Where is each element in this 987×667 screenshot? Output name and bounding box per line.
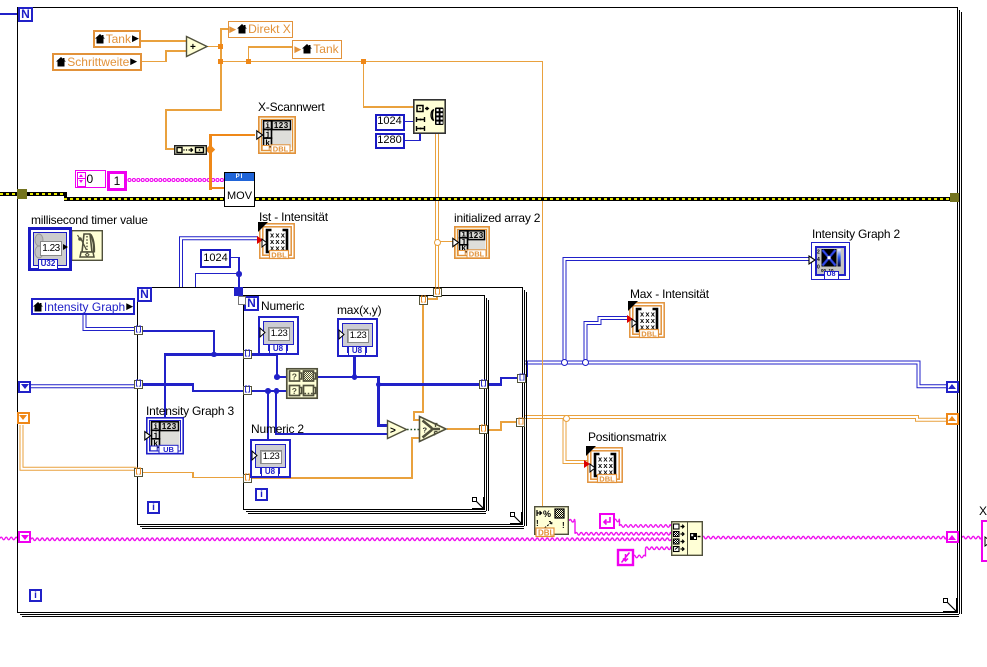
- wire: jog between loop tunnels: [436, 295, 438, 300]
- svg-text:?: ?: [423, 425, 428, 434]
- constant 1024 a: [375, 114, 405, 131]
- N terminal inner: [244, 296, 259, 311]
- wire: to Tank local: [248, 46, 292, 48]
- junction dot blue: [236, 271, 241, 276]
- junction ring orange: [434, 239, 441, 246]
- control Tank: [93, 30, 142, 48]
- control ref Intensity Graph: [31, 298, 135, 315]
- shift register right orange: [946, 413, 959, 425]
- tunnel middle left 1: [134, 326, 143, 335]
- tunnel middle right orange: [516, 418, 525, 427]
- wire: select t input: [422, 303, 424, 412]
- for loop middle border: [137, 287, 523, 525]
- wire: 1024 to Initialize Array: [404, 121, 414, 123]
- wire init array down: [435, 133, 439, 289]
- wire: long vertical orange x542: [542, 61, 544, 507]
- svg-text:DBL: DBL: [538, 528, 555, 537]
- constant 1280: [375, 133, 405, 150]
- function greater?: [386, 419, 408, 440]
- constant slash: [617, 549, 634, 566]
- svg-text:DBL: DBL: [641, 330, 657, 339]
- indicator Max - Intensitaet: [629, 302, 665, 338]
- label max(x,y): [337, 303, 381, 317]
- wire: to Direkt X: [220, 28, 229, 30]
- constant end of line: [599, 513, 615, 529]
- indicator millisecond timer value U32: [28, 227, 72, 271]
- wire: middle tunnel2 inside: [143, 383, 194, 385]
- i terminal inner: [255, 488, 268, 501]
- svg-text:DBL: DBL: [273, 145, 289, 154]
- wire 2D blue long: [524, 363, 947, 387]
- junction ring orange 2: [563, 415, 570, 422]
- tunnel inner left orange: [243, 474, 252, 483]
- label Positionsmatrix: [588, 430, 666, 444]
- svg-text:%: %: [543, 509, 551, 519]
- subVI PI MOV: [224, 172, 255, 207]
- svg-text:2: 2: [817, 249, 820, 255]
- svg-text:!: !: [562, 521, 565, 530]
- control Numeric 2: [250, 439, 291, 478]
- label Max - Intensität: [630, 287, 709, 301]
- function build array: [174, 145, 207, 155]
- wire: to Numeric 2: [267, 391, 269, 439]
- shift register right magenta: [946, 531, 959, 543]
- junction diamond: [206, 145, 215, 154]
- wire branch Max: [586, 318, 630, 361]
- function select: [418, 415, 448, 443]
- svg-text:123: 123: [274, 121, 289, 130]
- wire SR blue to tunnel: [31, 384, 136, 388]
- wire: add output: [207, 46, 222, 48]
- wire SR orange down: [22, 425, 137, 469]
- wire: 1280 to Initialize Array: [404, 140, 421, 142]
- i terminal outer: [29, 589, 42, 602]
- wire: outer loop count wire: [0, 13, 19, 15]
- wire: inner tunnel2 to max&min: [251, 390, 288, 392]
- wire: down to build array: [165, 109, 222, 111]
- tunnel middle right blue: [517, 374, 526, 383]
- i terminal middle: [147, 501, 160, 514]
- wire: long horizontal y61: [221, 61, 544, 63]
- svg-text:UB: UB: [163, 445, 174, 454]
- junction rings blue: [561, 359, 568, 366]
- svg-text:4: 4: [817, 257, 820, 263]
- shift register left blue: [18, 381, 31, 393]
- wire: hidden vertical at middle border: [526, 361, 528, 377]
- function wait until next ms multiple: [71, 230, 103, 261]
- function initialize array: [413, 99, 446, 134]
- control Numeric: [258, 316, 299, 355]
- control Schrittweite: [52, 53, 142, 72]
- wire IG ref out: [85, 314, 137, 329]
- wire: build array out to junction: [205, 149, 211, 151]
- tunnel inner top orange: [419, 296, 428, 305]
- svg-text:DBL: DBL: [271, 250, 287, 259]
- tunnel middle top blue solid: [234, 287, 243, 296]
- shift register left magenta: [18, 531, 31, 543]
- N terminal outer: [18, 7, 33, 22]
- wire: Tank to add: [141, 40, 187, 42]
- wire: inner right blue tunnel out: [487, 383, 502, 385]
- wire: element input to Initialize Array: [363, 61, 365, 108]
- wire: to > and inner right tunnel: [377, 376, 379, 427]
- svg-text:+: +: [190, 42, 196, 53]
- wire: vertical trunk x221: [220, 29, 222, 112]
- label Numeric 2: [251, 422, 304, 436]
- for loop outer folded corner: [943, 598, 958, 613]
- wire: max&min out / max(x,y) join: [318, 376, 380, 378]
- constant string 1: [107, 171, 127, 191]
- label Intensity Graph 2: [812, 227, 900, 241]
- tunnel inner right blue: [479, 380, 488, 389]
- tunnel middle left orange: [134, 468, 143, 477]
- function add: [185, 35, 209, 58]
- indicator Ist - Intensitaet: [259, 223, 295, 259]
- tunnel olive error left: [17, 189, 27, 199]
- wire: error cluster main segment: [64, 197, 950, 201]
- svg-text:123: 123: [162, 422, 177, 431]
- wire: to initialized array 2: [440, 241, 453, 243]
- tunnel inner top white: [238, 296, 247, 305]
- wire: error step: [64, 192, 67, 201]
- wire: 1024 const2 branches: [230, 257, 240, 259]
- tunnel olive error right: [950, 193, 959, 202]
- local Tank write: [292, 40, 342, 59]
- wire: error cluster left segment: [0, 192, 66, 196]
- wire: middle left orange tunnel in: [143, 472, 194, 474]
- junction dots orange: [218, 44, 223, 49]
- svg-text:0: 0: [817, 264, 820, 270]
- svg-text:!: !: [536, 519, 539, 528]
- label initialized array 2: [454, 211, 540, 225]
- tunnel inner left 1: [243, 350, 252, 359]
- shift register right blue: [946, 381, 959, 393]
- local Direkt X: [228, 21, 293, 38]
- control max(x,y): [337, 318, 378, 357]
- N terminal middle: [137, 287, 152, 302]
- indicator X-Scannwert: [258, 116, 296, 154]
- constant 1024 b: [200, 249, 231, 268]
- wire: inner tunnel1 to numeric join: [251, 353, 278, 355]
- function number to fractional string: [534, 506, 569, 537]
- shift register left orange: [17, 412, 30, 424]
- wire: to > bottom input: [275, 391, 277, 434]
- svg-text:>: >: [390, 426, 396, 437]
- label Ist - Intensität: [259, 210, 328, 224]
- indicator initialized array 2: [454, 226, 490, 259]
- function max&min: [286, 368, 318, 399]
- tunnel inner left 2: [243, 386, 252, 395]
- tunnel middle top orange: [433, 288, 442, 297]
- wire Ist-Intensitaet: [181, 238, 258, 288]
- label X partial: [979, 504, 987, 518]
- svg-text:?: ?: [292, 372, 297, 382]
- svg-text:DBL: DBL: [469, 249, 485, 258]
- wire: select f input: [251, 477, 413, 479]
- label Intensity Graph 3: [146, 404, 234, 418]
- for loop middle folded corner: [510, 512, 523, 525]
- control X partial: [981, 520, 987, 562]
- svg-text:?: ?: [292, 386, 297, 396]
- wire: inner orange tunnel to middle tunnel: [487, 429, 502, 431]
- label X-Scannwert: [258, 100, 325, 114]
- wire: select output: [447, 428, 480, 430]
- indicator Positionsmatrix: [587, 447, 623, 483]
- wire branch Positionsmatrix: [565, 419, 589, 462]
- label Numeric: [261, 299, 304, 313]
- tunnel middle left 2: [134, 380, 143, 389]
- function concatenate strings: [671, 521, 703, 556]
- tunnel inner right orange: [479, 425, 488, 434]
- indicator Intensity Graph 3: [146, 417, 184, 455]
- for loop inner folded corner: [472, 497, 485, 510]
- svg-text:DBL: DBL: [599, 475, 615, 484]
- wire 2D orange long: [524, 417, 947, 420]
- wire: middle tunnel1 inside: [143, 330, 215, 332]
- wire: Schrittweite to add: [141, 61, 167, 63]
- svg-text:123: 123: [469, 230, 484, 239]
- for loop inner border: [243, 295, 485, 510]
- wire: U32 to wait ms: [66, 246, 72, 248]
- wire branch Intensity Graph 2: [565, 259, 813, 361]
- constant cluster 0: [75, 170, 106, 188]
- indicator Intensity Graph 2: [811, 242, 850, 280]
- wire: thick to X-Scannwert and MOV: [209, 134, 212, 190]
- label millisecond timer value: [31, 213, 148, 227]
